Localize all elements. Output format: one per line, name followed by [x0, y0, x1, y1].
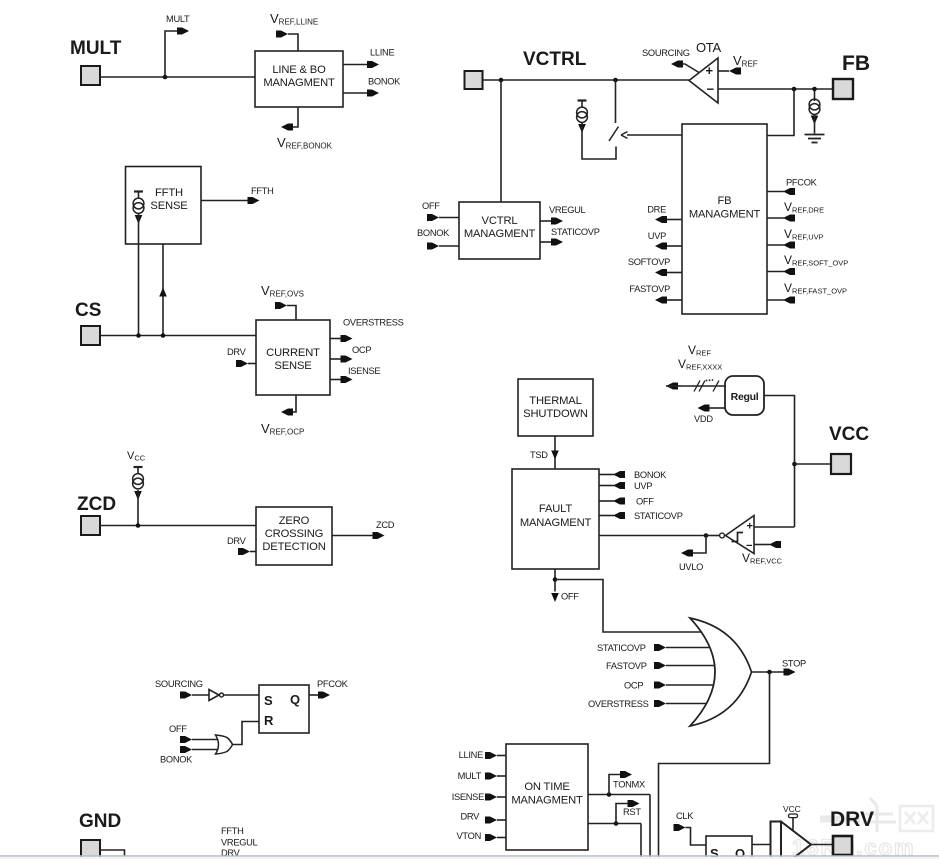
net flag DRV (in) to ON TIME — [485, 817, 497, 824]
wire SOURCING from OTA top edge — [682, 64, 699, 73]
wire schmitt output to node — [706, 535, 720, 537]
junction FB node A — [792, 87, 797, 92]
wire VTON into ON TIME — [497, 837, 506, 839]
inverter U-INV — [209, 690, 219, 701]
junction CS node B — [161, 333, 166, 338]
svg-text:VCC: VCC — [829, 424, 869, 445]
svg-text:MULT: MULT — [458, 771, 482, 781]
svg-text:OFF: OFF — [636, 497, 654, 507]
block VCTRL MANAGMENT — [459, 202, 540, 259]
svg-text:OCP: OCP — [624, 681, 643, 691]
switch SW1 top wire — [615, 80, 617, 123]
net flag STATICOVP into FAULT — [613, 512, 625, 519]
svg-text:GND: GND — [79, 811, 121, 832]
svg-text:ZERO: ZERO — [279, 515, 310, 527]
wire SOFTOVP output stub — [667, 272, 682, 274]
block CURRENT SENSE — [256, 320, 330, 395]
comparator U-UVLO schmitt — [726, 516, 755, 554]
pin VCC pad — [831, 454, 851, 474]
wire OFF into VCTRL MANAGMENT — [439, 217, 459, 219]
wire UVP output stub — [667, 245, 682, 247]
net flag CLK (in) — [674, 824, 686, 831]
wire STOP node down to driver latch — [659, 672, 770, 859]
wire UVLO branch — [692, 536, 706, 554]
svg-text:MANAGMENT: MANAGMENT — [689, 209, 761, 221]
junction RST node — [614, 821, 619, 826]
svg-text:CLK: CLK — [676, 811, 694, 821]
wire schmitt + input from VCC node — [754, 526, 795, 528]
op-amp OTA error amplifier — [689, 58, 718, 103]
flip-flop U-PFCOK SR latch — [259, 685, 309, 733]
svg-text:MANAGMENT: MANAGMENT — [464, 228, 536, 240]
net flag V_REF,OCP — [281, 409, 293, 416]
net flag BONOK (in) — [427, 243, 439, 250]
net flag UVLO (out) — [681, 550, 693, 557]
wire OVERSTRESS output — [330, 338, 342, 340]
svg-text:STATICOVP: STATICOVP — [634, 511, 683, 521]
OR gate U-STOP 5-input — [690, 618, 752, 726]
ground symbol below FB current source — [805, 134, 825, 136]
svg-text:LLINE: LLINE — [459, 750, 483, 760]
block FFTH SENSE — [126, 167, 202, 245]
wire TONMX output main — [588, 794, 650, 796]
junction VCC node — [792, 462, 797, 467]
wire STATICOVP to OR — [666, 647, 709, 649]
block ZERO CROSSING DETECTION — [256, 507, 332, 565]
wire inverter to S input — [224, 694, 260, 696]
wire V_REF,DRE stub — [767, 217, 784, 219]
svg-text:VCTRL: VCTRL — [523, 49, 587, 70]
svg-text:DRV: DRV — [227, 536, 247, 546]
svg-text:MULT: MULT — [70, 38, 122, 59]
current source I-FFTH inside FFTH SENSE — [134, 190, 143, 192]
svg-text:PFCOK: PFCOK — [317, 679, 349, 689]
svg-text:RST: RST — [623, 807, 641, 817]
junction CS node A — [136, 333, 141, 338]
svg-text:ZCD: ZCD — [376, 520, 395, 530]
wire BONOK output — [343, 92, 369, 94]
wire FAULT output to schmitt comparator node — [599, 535, 706, 537]
net flag FFTH (out) — [248, 197, 260, 204]
wire BONOK to OR gate — [192, 749, 218, 751]
wire VREGUL output — [540, 220, 551, 222]
svg-text:FB: FB — [842, 52, 870, 75]
svg-text:CROSSING: CROSSING — [265, 528, 323, 540]
net flag ISENSE (in) — [485, 794, 497, 801]
net flag BONOK (in) — [180, 746, 192, 753]
net flag V_REF into OTA + — [729, 68, 741, 75]
svg-text:FASTOVP: FASTOVP — [629, 284, 670, 294]
wire Regul output to VCC node — [764, 396, 795, 528]
wire CS to CURRENT SENSE — [100, 335, 256, 337]
svg-text:VREGUL: VREGUL — [221, 838, 258, 848]
svg-text:VDD: VDD — [694, 414, 713, 424]
arrow OFF down — [551, 593, 559, 602]
net flag OVERSTRESS (out) — [341, 335, 353, 342]
svg-text:ISENSE: ISENSE — [452, 792, 484, 802]
wire OCP to OR — [666, 684, 713, 686]
svg-text:SHUTDOWN: SHUTDOWN — [523, 408, 588, 420]
svg-text:R: R — [264, 713, 274, 728]
svg-text:BONOK: BONOK — [160, 755, 193, 765]
svg-text:BONOK: BONOK — [368, 77, 401, 87]
pin CS pad — [81, 326, 100, 345]
wire driver output to DRV pad — [811, 844, 833, 846]
net flag PFCOK at FB MANAGMENT — [783, 188, 795, 195]
wire V_REF,FAST_OVP stub — [767, 299, 784, 301]
wire CS sense up into FFTH SENSE — [162, 244, 164, 336]
svg-text:OVERSTRESS: OVERSTRESS — [588, 699, 649, 709]
wire current source to switch bottom — [582, 123, 616, 159]
net flag V_REF,LLINE (in) — [276, 31, 288, 38]
net flag STATICOVP (out) — [551, 239, 563, 246]
svg-text:UVP: UVP — [648, 231, 666, 241]
svg-text:LINE & BO: LINE & BO — [272, 64, 326, 76]
svg-text:OVERSTRESS: OVERSTRESS — [343, 318, 404, 328]
net flag STOP (out) — [784, 669, 796, 676]
wire PFCOK output stub — [767, 191, 784, 193]
net flag UVP into FAULT — [613, 482, 625, 489]
svg-text:STATICOVP: STATICOVP — [551, 227, 600, 237]
wire FFTH output — [201, 200, 250, 202]
wire OVERSTRESS to OR — [666, 703, 706, 705]
net flag VREGUL (out) — [551, 218, 563, 225]
block Regul regulator — [725, 376, 764, 415]
wire CLK into driver latch S — [686, 828, 707, 846]
wire TONMX down to bottom — [649, 795, 651, 859]
block ON TIME MANAGMENT — [506, 744, 588, 850]
wire V_REF,VCC to schmitt - input — [754, 544, 770, 546]
wire RST down to bottom — [640, 824, 642, 859]
block FB MANAGMENT — [682, 124, 767, 314]
wire V_REF to OTA + input — [718, 70, 729, 72]
svg-text:STATICOVP: STATICOVP — [597, 643, 646, 653]
svg-text:−: − — [707, 82, 715, 97]
net flag MULT (in) — [485, 773, 497, 780]
net flag STATICOVP into OR — [654, 644, 666, 651]
net flag VTON (in) — [485, 834, 497, 841]
wire LLINE into ON TIME — [497, 755, 506, 757]
arrow FB current source down — [811, 116, 819, 125]
svg-text:DRE: DRE — [647, 205, 666, 215]
capacitor-like VCC tap at driver — [789, 814, 798, 818]
net flag V_REF,BONOK — [281, 124, 293, 131]
wire FB current source to ground — [814, 115, 816, 134]
net flag MULT (out) — [177, 28, 189, 35]
svg-text:CURRENT: CURRENT — [266, 347, 320, 359]
wire MULT to LINE&BO block — [100, 76, 255, 78]
wire MULT node up to MULT net flag — [165, 31, 179, 77]
wire Q to driver — [752, 844, 771, 846]
current source I-FB — [814, 89, 816, 101]
net flag FASTOVP into OR — [654, 662, 666, 669]
wire TONMX branch up — [609, 775, 622, 795]
pin GND pad — [81, 840, 100, 859]
pin DRV pad — [833, 836, 852, 855]
net flag OVERSTRESS into OR — [654, 700, 666, 707]
wire LLINE output — [343, 64, 369, 66]
net flag V_REF bus — [666, 383, 678, 390]
wire ZCD to ZERO CROSSING DETECTION — [100, 525, 256, 527]
net flag DRV (in) to ZCD block — [238, 548, 250, 555]
wire TSD to FAULT MANAGMENT — [554, 436, 556, 469]
svg-text:UVLO: UVLO — [679, 562, 703, 572]
svg-text:SENSE: SENSE — [274, 360, 311, 372]
net flag DRE (out) — [655, 216, 667, 223]
pin ZCD pad — [81, 516, 100, 535]
net flag V_REF,SOFT_OVP — [783, 268, 795, 275]
wire VDD from Regul — [709, 407, 725, 409]
junction FB node B — [812, 87, 817, 92]
watermark stroke yi — [820, 816, 860, 823]
net flag BONOK (out) — [367, 90, 379, 97]
wire OFF branch to OR gate — [555, 580, 701, 633]
block FAULT MANAGMENT — [512, 469, 599, 569]
svg-text:+: + — [747, 521, 753, 533]
wire V_REF bus from Regul — [681, 385, 725, 387]
svg-text:DETECTION: DETECTION — [262, 541, 325, 553]
svg-text:SOURCING: SOURCING — [155, 679, 203, 689]
svg-text:LLINE: LLINE — [370, 48, 394, 58]
wire OFF to OR gate — [192, 739, 218, 741]
net flag OCP into OR — [654, 682, 666, 689]
net flag OFF into FAULT — [613, 498, 625, 505]
current source I-ZCD from VCC — [134, 466, 143, 468]
svg-text:DRV: DRV — [460, 812, 480, 822]
switch SW1 control arrow from FB MANAGMENT — [627, 134, 682, 136]
junction MULT node — [163, 75, 168, 80]
wire V_REF,OCP from CURRENT SENSE bottom — [293, 395, 296, 412]
junction STOP node — [767, 670, 772, 675]
svg-text:SENSE: SENSE — [150, 200, 187, 212]
svg-text:DRV: DRV — [830, 808, 874, 831]
svg-text:TONMX: TONMX — [613, 780, 645, 790]
wire OTA - output to FB — [718, 88, 833, 90]
svg-text:FFTH: FFTH — [155, 187, 183, 199]
svg-text:VCTRL: VCTRL — [482, 215, 518, 227]
pin FB pad — [833, 79, 853, 99]
wire FAULT bottom OFF — [554, 569, 556, 592]
wire V_REF,LLINE into LINE&BO top — [288, 34, 298, 51]
switch SW1 blade — [609, 127, 619, 142]
svg-text:SOURCING: SOURCING — [642, 48, 690, 58]
watermark stroke niu — [862, 798, 896, 832]
svg-text:OFF: OFF — [422, 201, 440, 211]
svg-text:BONOK: BONOK — [417, 228, 450, 238]
wire VCTRL node down to VCTRL MANAGMENT — [500, 80, 502, 202]
net flag TONMX (out) — [620, 771, 632, 778]
wire DRE output stub — [667, 219, 682, 221]
wire OCP output — [330, 358, 342, 360]
wire DRV into ON TIME — [497, 819, 506, 821]
block THERMAL SHUTDOWN — [518, 379, 593, 436]
net flag ZCD (out) — [373, 532, 385, 539]
page bottom edge line — [0, 855, 939, 857]
net flag LLINE (in) — [485, 752, 497, 759]
wire VCTRL to OTA output — [483, 79, 690, 81]
svg-text:S: S — [264, 693, 273, 708]
pin VCTRL pad — [465, 71, 483, 89]
svg-text:DRV: DRV — [227, 347, 247, 357]
wire ISENSE into ON TIME — [497, 796, 506, 798]
net flag BONOK into FAULT — [613, 471, 625, 478]
svg-text:+: + — [706, 63, 714, 78]
watermark char wang — [900, 806, 933, 831]
svg-text:FAULT: FAULT — [539, 503, 573, 515]
svg-text:Regul: Regul — [731, 391, 759, 403]
arrow VCTRL current source down — [578, 124, 586, 133]
net flag OFF (in) — [427, 214, 439, 221]
net flag V_REF,VCC — [769, 541, 781, 548]
wire OR output to R input — [232, 722, 260, 745]
schmitt hysteresis symbol — [732, 533, 744, 542]
svg-text:MULT: MULT — [166, 14, 190, 24]
wire STATICOVP output — [540, 241, 551, 243]
svg-text:CS: CS — [75, 300, 101, 321]
wire GND stub — [100, 850, 125, 856]
wire Q to PFCOK flag — [309, 694, 319, 696]
svg-text:ISENSE: ISENSE — [348, 366, 380, 376]
svg-text:MANAGMENT: MANAGMENT — [511, 795, 583, 807]
wire UVP input stub to FAULT — [599, 485, 614, 487]
wire OFF input stub to FAULT — [599, 500, 614, 502]
wire ISENSE output — [330, 379, 342, 381]
svg-text:STOP: STOP — [782, 659, 806, 669]
OR gate U-OR small — [216, 735, 233, 754]
wire V_REF,OVS into CURRENT SENSE top — [287, 306, 296, 321]
arrow ZCD current source down — [134, 491, 142, 500]
net flag LLINE (out) — [367, 61, 379, 68]
arrow current source output down — [135, 215, 143, 224]
wire FFTH current source down to CS net — [138, 214, 140, 336]
arrow TSD down — [551, 451, 559, 460]
svg-text:THERMAL: THERMAL — [529, 395, 581, 407]
svg-text:SOFTOVP: SOFTOVP — [628, 257, 670, 267]
svg-text:FASTOVP: FASTOVP — [606, 661, 647, 671]
junction schmitt output node — [704, 533, 709, 538]
net flag V_REF,UVP — [783, 242, 795, 249]
svg-text:OCP: OCP — [352, 345, 371, 355]
net flag RST (out) — [628, 800, 640, 807]
net flag OFF (in) — [180, 736, 192, 743]
svg-text:FB: FB — [718, 195, 732, 207]
current source I-VCTRL — [578, 99, 587, 101]
net flag ISENSE (out) — [341, 376, 353, 383]
wire ZCD current source to ZCD net — [137, 490, 139, 526]
wire BONOK input stub to FAULT — [599, 474, 614, 476]
pin MULT pad — [81, 66, 100, 85]
wire MULT into ON TIME — [497, 775, 506, 777]
svg-text:Q: Q — [290, 692, 300, 707]
svg-text:TSD: TSD — [530, 450, 548, 460]
wire BONOK into VCTRL MANAGMENT — [439, 245, 459, 247]
wire V_REF,SOFT_OVP stub — [767, 271, 784, 273]
svg-text:PFCOK: PFCOK — [786, 178, 818, 188]
svg-text:BONOK: BONOK — [634, 470, 667, 480]
wire DRV into ZCD block — [250, 551, 256, 553]
wire RST output main — [588, 823, 641, 825]
svg-text:VCC: VCC — [783, 804, 801, 814]
block LINE & BO MANAGMENT — [255, 51, 343, 107]
net flag SOURCING (in) — [180, 692, 192, 699]
svg-text:OFF: OFF — [169, 724, 187, 734]
junction VCTRL node B — [613, 78, 618, 83]
svg-text:VTON: VTON — [457, 831, 481, 841]
flip-flop U-DRV SR latch — [706, 836, 752, 859]
wire FASTOVP output stub — [667, 299, 682, 301]
net flag PFCOK (out) — [318, 692, 330, 699]
net flag V_REF,FAST_OVP — [783, 297, 795, 304]
net flag SOFTOVP (out) — [655, 269, 667, 276]
wire V_REF,UVP stub — [767, 244, 784, 246]
svg-text:FFTH: FFTH — [221, 826, 244, 836]
arrow up on CS sense wire — [159, 288, 167, 297]
svg-text:OFF: OFF — [561, 592, 579, 602]
driver buffer DRV stage — [771, 822, 782, 859]
junction TONMX node — [607, 792, 612, 797]
svg-text:FFTH: FFTH — [251, 186, 274, 196]
net flag V_REF,DRE — [783, 215, 795, 222]
wire SOURCING to inverter — [192, 694, 209, 696]
net flag V_REF,OVS (in) — [275, 302, 287, 309]
net flag OCP (out) — [341, 356, 353, 363]
net flag DRV (in) — [236, 360, 248, 367]
wire FB node down into FB MANAGMENT — [767, 89, 794, 136]
svg-text:MANAGMENT: MANAGMENT — [520, 517, 592, 529]
svg-text:ON TIME: ON TIME — [524, 781, 569, 793]
wire VCC tap into driver — [792, 818, 794, 831]
net flag FASTOVP (out) — [655, 297, 667, 304]
net flag SOURCING (out of OTA) — [671, 61, 683, 68]
wire VCC node to VCC pad — [795, 463, 832, 465]
wire DRV into CURRENT SENSE — [248, 363, 256, 365]
wire RST branch up — [616, 804, 629, 824]
net flag UVP (out) — [655, 243, 667, 250]
wire STATICOVP input stub to FAULT — [599, 515, 614, 517]
net flag VDD (out) — [698, 405, 710, 412]
wire FASTOVP to OR — [666, 665, 714, 667]
junction ZCD node — [136, 523, 141, 528]
wire ZCD output — [332, 535, 374, 537]
junction VCTRL node A — [499, 78, 504, 83]
svg-text:VREGUL: VREGUL — [549, 205, 586, 215]
wire OR output to STOP — [752, 671, 786, 673]
svg-text:ZCD: ZCD — [77, 494, 116, 515]
wire V_REF,BONOK from LINE&BO bottom — [293, 107, 298, 127]
svg-text:MANAGMENT: MANAGMENT — [263, 77, 335, 89]
svg-text:UVP: UVP — [634, 481, 652, 491]
svg-text:OTA: OTA — [696, 40, 721, 55]
bus slash marks on V_REF bus — [694, 381, 719, 392]
junction OFF node below FAULT — [553, 577, 558, 582]
